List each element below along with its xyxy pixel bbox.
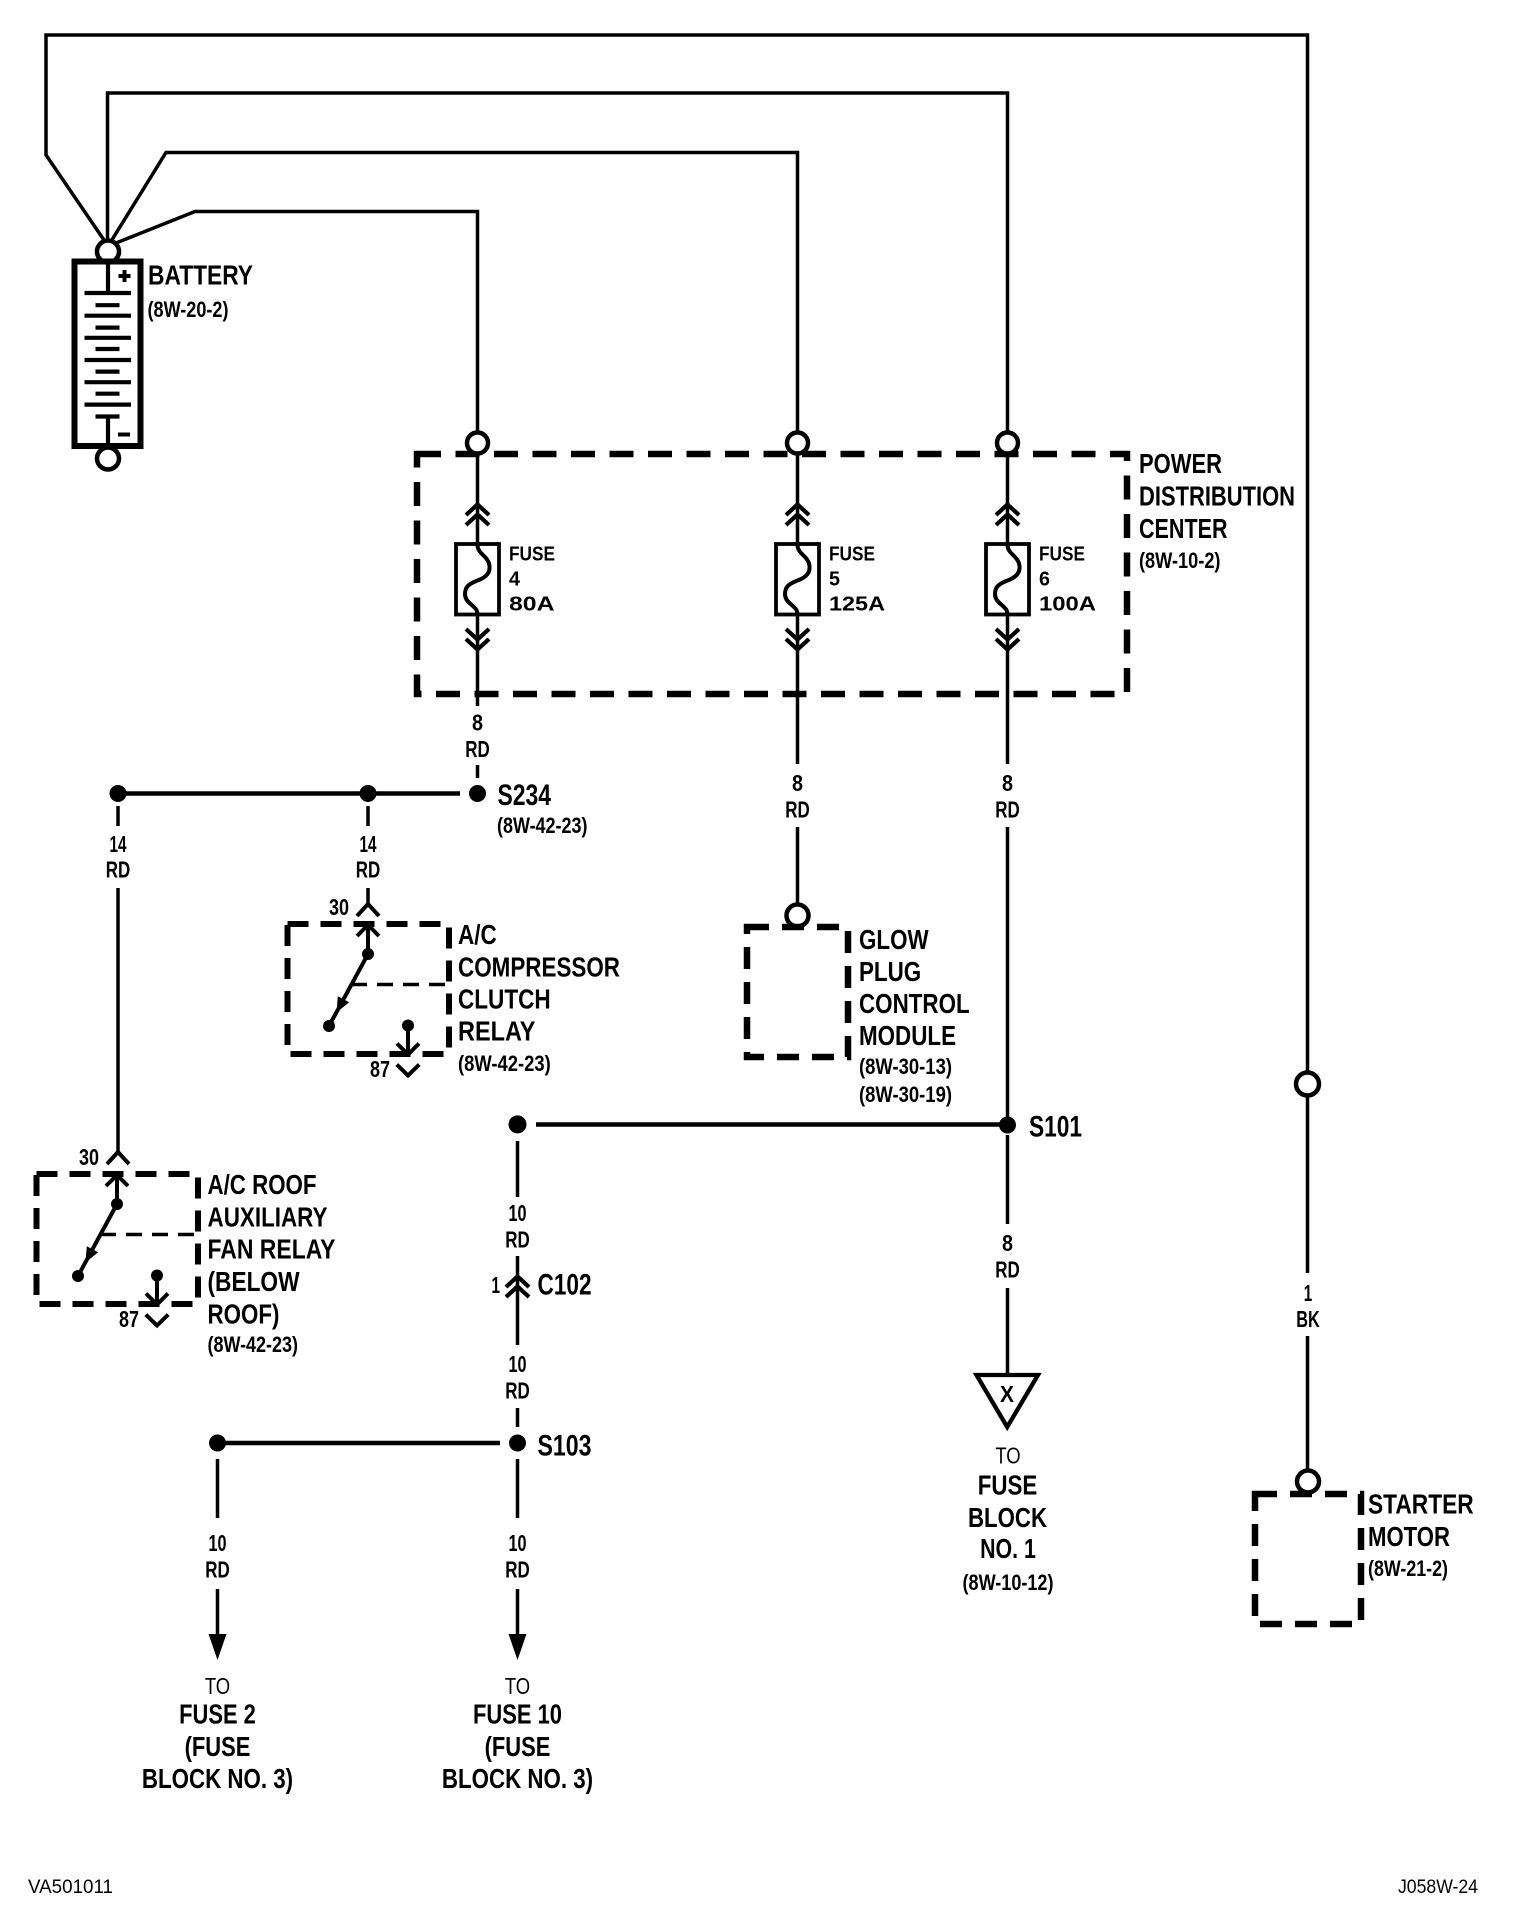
fuse F4 body rectangle (456, 544, 499, 615)
A/C roof auxiliary fan relay K2 switch blade end dot (72, 1270, 84, 1282)
fuse 5 output connector chevrons (786, 629, 809, 650)
A/C roof auxiliary fan relay K2 internal dashed divider (100, 1233, 198, 1237)
glow plug module connector circle (787, 905, 809, 927)
wire fuse 4 to output chevrons and PDC bottom edge (476, 614, 480, 694)
svg-text:(8W-10-12): (8W-10-12) (963, 1570, 1054, 1595)
svg-text:30: 30 (79, 1144, 99, 1170)
fuse F5 body rectangle (776, 544, 819, 615)
svg-text:POWER: POWER (1139, 448, 1222, 479)
svg-text:BK: BK (1296, 1306, 1320, 1332)
svg-text:FUSE 10: FUSE 10 (473, 1699, 562, 1730)
A/C roof auxiliary fan relay K2 dashed box (37, 1174, 199, 1304)
svg-text:FUSE: FUSE (978, 1470, 1038, 1501)
svg-text:(8W-42-23): (8W-42-23) (208, 1332, 299, 1357)
svg-text:1: 1 (1304, 1280, 1313, 1306)
fuse 4 output connector chevrons (466, 629, 489, 650)
svg-text:RD: RD (356, 857, 381, 883)
svg-text:RD: RD (505, 1227, 530, 1253)
A/C roof auxiliary fan relay K2 terminal 30 male chevron at box edge (106, 1175, 128, 1186)
svg-text:J058W-24: J058W-24 (1398, 1877, 1478, 1898)
svg-text:TO: TO (995, 1443, 1020, 1469)
wire through connector C102 (516, 1256, 520, 1345)
power distribution center dashed box (417, 454, 1127, 694)
svg-text:6: 6 (1039, 569, 1050, 591)
svg-text:14: 14 (360, 831, 377, 857)
connector circle at PDC top, fuse 5 column (787, 433, 808, 454)
wire down to starter motor (1306, 1336, 1310, 1470)
wire fuse 5 to output chevrons and PDC bottom edge (796, 614, 800, 694)
wire battery feed 3 (to fuse 5 column) (110, 153, 798, 433)
svg-text:RELAY: RELAY (458, 1016, 536, 1047)
svg-text:(FUSE: (FUSE (485, 1731, 551, 1762)
svg-text:14: 14 (110, 831, 127, 857)
fan relay terminal 30 female Y connector (107, 1152, 129, 1164)
A/C compressor clutch relay K1 dashed box (288, 924, 450, 1054)
svg-text:BLOCK NO. 3): BLOCK NO. 3) (142, 1763, 293, 1794)
junction dot left end of S103 bus (209, 1435, 226, 1452)
A/C compressor clutch relay K1 terminal 87 dot (402, 1020, 414, 1032)
A/C roof auxiliary fan relay K2 terminal 87 female V connector below box (146, 1315, 168, 1326)
wire down to glow plug module connector (796, 827, 800, 904)
battery plus sign (119, 270, 131, 282)
fuse 6 input connector chevrons (996, 505, 1019, 526)
junction dot middle branch on S234 bus (360, 785, 377, 802)
svg-text:FUSE: FUSE (1039, 544, 1085, 566)
wire from S101 bus left end down (516, 1141, 520, 1197)
svg-text:S101: S101 (1029, 1111, 1082, 1144)
svg-text:CLUTCH: CLUTCH (458, 984, 551, 1015)
wire below S101 (1006, 1135, 1010, 1224)
A/C roof auxiliary fan relay K2 terminal 30 stem to switch pivot (115, 1175, 119, 1204)
starter motor dashed box (1255, 1494, 1361, 1624)
svg-text:MOTOR: MOTOR (1368, 1521, 1450, 1552)
battery bottom plate T and stem to negative terminal (96, 417, 120, 448)
svg-text:(8W-20-2): (8W-20-2) (148, 297, 229, 322)
svg-text:PLUG: PLUG (859, 956, 921, 987)
svg-text:(8W-10-2): (8W-10-2) (1139, 548, 1221, 573)
wire stub below S234 left dot (116, 806, 120, 826)
wire down to off-page triangle (1006, 1288, 1010, 1374)
svg-text:BLOCK: BLOCK (968, 1502, 1047, 1533)
svg-text:8: 8 (472, 710, 483, 736)
A/C compressor clutch relay K1 internal dashed divider (351, 983, 449, 987)
svg-text:RD: RD (995, 1257, 1020, 1283)
A/C roof auxiliary fan relay K2 switch blade arrowhead (86, 1246, 99, 1262)
svg-text:BLOCK NO. 3): BLOCK NO. 3) (442, 1763, 593, 1794)
wire fuse 4 output below PDC (476, 694, 480, 706)
wire below S103 left dot (216, 1459, 220, 1518)
svg-text:A/C: A/C (458, 919, 497, 950)
fuse 5 input connector chevrons (786, 505, 809, 526)
svg-text:X: X (1000, 1381, 1015, 1407)
svg-text:10: 10 (509, 1530, 527, 1556)
svg-text:S103: S103 (538, 1429, 592, 1462)
A/C compressor clutch relay K1 terminal 30 male chevron at box edge (357, 925, 379, 936)
arrowhead to fuse 10 (509, 1634, 527, 1660)
svg-text:8: 8 (1002, 770, 1013, 796)
A/C roof auxiliary fan relay K2 terminal 87 male chevron at box edge (146, 1294, 168, 1305)
A/C compressor clutch relay K1 switch pivot dot (362, 948, 374, 960)
node S103 junction dot (509, 1435, 526, 1452)
A/C roof auxiliary fan relay K2 terminal 87 stem (155, 1276, 159, 1304)
battery B- terminal connector circle (97, 448, 119, 470)
svg-text:5: 5 (829, 569, 840, 591)
wire PDC entry to fuse 5 (796, 454, 800, 544)
svg-text:(8W-42-23): (8W-42-23) (458, 1051, 551, 1076)
wire fuse 5 output below PDC (796, 694, 800, 764)
wire fuse 6 output below PDC (1006, 694, 1010, 764)
fuse F5 element squiggle (785, 545, 810, 613)
svg-text:A/C ROOF: A/C ROOF (208, 1169, 317, 1200)
A/C compressor clutch relay K1 switch blade end dot (323, 1020, 335, 1032)
A/C compressor clutch relay K1 terminal 30 stem to switch pivot (366, 925, 370, 954)
wire PDC entry to fuse 6 (1006, 454, 1010, 544)
svg-text:S234: S234 (498, 779, 552, 812)
A/C compressor clutch relay K1 switch blade arrowhead (337, 996, 350, 1012)
wire battery feed 2 (to fuse 6 column) (108, 93, 1008, 432)
compressor relay terminal 30 female Y connector (357, 904, 379, 916)
wire battery feed 4 (to fuse 4 column) (111, 212, 478, 433)
wire middle branch stem (366, 888, 370, 905)
junction dot left end of S101 bus (509, 1115, 527, 1133)
svg-text:10: 10 (509, 1200, 527, 1226)
node S101 junction dot (999, 1117, 1016, 1134)
fuse 6 output connector chevrons (996, 629, 1019, 650)
A/C roof auxiliary fan relay K2 terminal 87 dot (151, 1270, 163, 1282)
svg-text:ROOF): ROOF) (208, 1299, 280, 1330)
wire stub below S234 middle dot (366, 806, 370, 826)
svg-text:MODULE: MODULE (859, 1020, 956, 1051)
svg-text:DISTRIBUTION: DISTRIBUTION (1139, 481, 1295, 512)
splice bus S101 horizontal wire (536, 1122, 1008, 1127)
svg-text:125A: 125A (829, 594, 885, 616)
svg-text:(8W-42-23): (8W-42-23) (497, 813, 588, 838)
node S234 junction dot (469, 785, 486, 802)
A/C compressor clutch relay K1 terminal 87 female V connector below box (397, 1065, 419, 1076)
svg-text:STARTER: STARTER (1368, 1489, 1474, 1520)
connector C102 chevrons (506, 1277, 529, 1298)
svg-text:RD: RD (205, 1556, 230, 1582)
svg-text:NO. 1: NO. 1 (980, 1533, 1036, 1564)
svg-text:1: 1 (492, 1272, 501, 1298)
svg-text:(8W-21-2): (8W-21-2) (1368, 1556, 1448, 1581)
svg-text:COMPRESSOR: COMPRESSOR (458, 952, 620, 983)
svg-text:100A: 100A (1039, 594, 1096, 616)
wire fuse 6 to output chevrons and PDC bottom edge (1006, 614, 1010, 694)
wire stub above S103 (516, 1408, 520, 1427)
glow plug control module dashed box (747, 927, 848, 1057)
svg-text:30: 30 (329, 894, 349, 920)
svg-text:80A: 80A (509, 594, 555, 616)
svg-text:RD: RD (505, 1378, 530, 1404)
svg-text:10: 10 (209, 1530, 227, 1556)
wire with arrow to fuse 10 (516, 1589, 520, 1637)
svg-text:FUSE 2: FUSE 2 (179, 1699, 256, 1730)
fuse 4 input connector chevrons (466, 505, 489, 526)
fuse F6 element squiggle (995, 545, 1020, 613)
starter motor connector circle (1297, 1471, 1319, 1493)
fuse F4 element squiggle (465, 545, 490, 613)
battery B+ terminal connector circle (97, 241, 119, 263)
battery internal top stem (106, 263, 110, 293)
svg-text:FAN RELAY: FAN RELAY (208, 1234, 336, 1265)
A/C roof auxiliary fan relay K2 switch blade (78, 1204, 117, 1276)
A/C compressor clutch relay K1 terminal 87 stem (406, 1026, 410, 1054)
splice bus S103 horizontal wire (218, 1441, 501, 1446)
svg-text:10: 10 (509, 1351, 527, 1377)
off-page connector triangle with X (977, 1375, 1039, 1427)
splice bus S234 horizontal wire (118, 791, 460, 796)
svg-text:CENTER: CENTER (1139, 513, 1228, 544)
svg-text:CONTROL: CONTROL (859, 988, 970, 1019)
svg-text:RD: RD (465, 736, 490, 762)
inline connector circle on starter feed wire (1296, 1073, 1319, 1096)
svg-text:87: 87 (119, 1306, 139, 1332)
svg-text:C102: C102 (538, 1269, 592, 1302)
svg-text:(8W-30-13): (8W-30-13) (859, 1054, 952, 1079)
svg-text:FUSE: FUSE (509, 544, 555, 566)
battery minus sign (118, 433, 130, 437)
svg-text:87: 87 (370, 1056, 390, 1082)
A/C roof auxiliary fan relay K2 switch pivot dot (111, 1198, 123, 1210)
connector circle at PDC top, fuse 6 column (997, 433, 1018, 454)
wire with arrow to fuse 2 (216, 1589, 220, 1637)
battery cell plates (85, 293, 132, 405)
wire stub above S234 (476, 765, 480, 778)
arrowhead to fuse 2 (209, 1634, 227, 1660)
A/C compressor clutch relay K1 terminal 87 male chevron at box edge (397, 1044, 419, 1055)
svg-text:(8W-30-19): (8W-30-19) (859, 1082, 952, 1107)
svg-text:GLOW: GLOW (859, 924, 929, 955)
wire below S103 right dot (516, 1459, 520, 1518)
svg-text:RD: RD (505, 1556, 530, 1582)
A/C compressor clutch relay K1 switch blade (329, 954, 368, 1026)
svg-text:RD: RD (785, 797, 810, 823)
wire below inline connector (1306, 1096, 1310, 1273)
svg-text:8: 8 (1002, 1230, 1013, 1256)
svg-text:(FUSE: (FUSE (185, 1731, 251, 1762)
battery BATTERY symbol box (75, 262, 141, 447)
wire down to node S101 (1006, 827, 1010, 1117)
fuse F6 body rectangle (986, 544, 1029, 615)
svg-text:BATTERY: BATTERY (148, 260, 253, 291)
svg-text:AUXILIARY: AUXILIARY (208, 1202, 328, 1233)
svg-text:RD: RD (106, 857, 131, 883)
svg-text:RD: RD (995, 797, 1020, 823)
svg-text:VA501011: VA501011 (28, 1877, 113, 1898)
svg-text:4: 4 (509, 569, 521, 591)
svg-text:TO: TO (205, 1673, 230, 1699)
connector circle at PDC top, fuse 4 column (467, 433, 488, 454)
svg-text:(BELOW: (BELOW (208, 1266, 300, 1297)
svg-text:TO: TO (505, 1673, 530, 1699)
battery positive terminal feed wire 1 (to starter column) (46, 35, 1308, 1073)
junction dot left branch end of S234 bus (110, 785, 127, 802)
svg-text:8: 8 (792, 770, 803, 796)
wire left branch down to fan relay (116, 888, 120, 1151)
svg-text:FUSE: FUSE (829, 544, 875, 566)
wire PDC entry to fuse 4 (476, 454, 480, 544)
